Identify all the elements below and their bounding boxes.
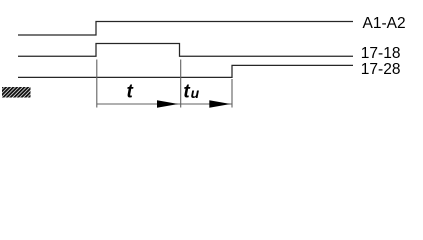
svg-text:t: t	[183, 81, 190, 102]
svg-text:u: u	[191, 85, 200, 101]
svg-text:17-28: 17-28	[361, 61, 401, 78]
svg-text:t: t	[127, 81, 134, 102]
svg-text:17-18: 17-18	[361, 45, 401, 62]
svg-text:A1-A2: A1-A2	[363, 15, 406, 32]
